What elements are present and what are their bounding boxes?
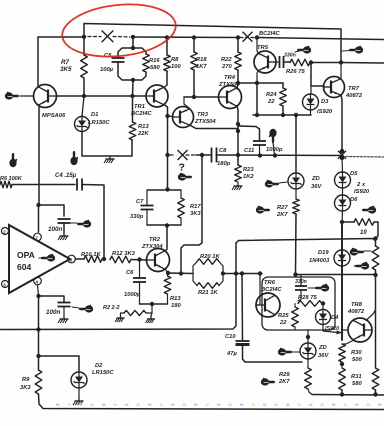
svg-text:D3: D3 (321, 99, 329, 105)
hand icon right top (355, 46, 363, 53)
wire box top edge (236, 239, 376, 247)
svg-text:40872: 40872 (345, 93, 363, 99)
wire loop to TR6 (223, 273, 262, 275)
svg-text:R24: R24 (266, 92, 277, 98)
svg-text:10: 10 (360, 230, 367, 236)
wire box right lower column (375, 275, 377, 368)
resistor R13 22K (132, 96, 134, 122)
transistor TR2 ZTX304 (147, 249, 170, 272)
svg-text:TR4: TR4 (224, 75, 236, 81)
wire testpoint stub (273, 142, 275, 156)
node R23 tap (236, 153, 240, 157)
svg-text:C11: C11 (244, 148, 254, 154)
wire zener column (295, 115, 297, 173)
svg-text:LR150C: LR150C (92, 370, 114, 376)
resistor 10 (354, 219, 374, 226)
svg-text:180: 180 (171, 303, 181, 309)
zener ZD 36V (upper) (288, 173, 304, 189)
wire R26 node to corner node (311, 62, 341, 64)
svg-text:D1: D1 (91, 112, 98, 118)
transistor TR5 BC214C (254, 51, 276, 73)
wire TR5 emitter ext (256, 83, 258, 115)
svg-text:580: 580 (150, 65, 160, 71)
resistor R22 270 (237, 38, 239, 53)
svg-text:R8: R8 (171, 57, 179, 63)
wire TR6 base drop (256, 274, 260, 306)
resistor R31 580 (339, 368, 346, 390)
wire R27 down to box (295, 214, 298, 275)
svg-text:330n: 330n (284, 53, 296, 59)
wire C7R17 bottom bar (147, 224, 181, 226)
node rail A corner (339, 60, 343, 64)
wire TR4-TR5 emitter bus (238, 82, 283, 84)
node Q1/R7/D1 (82, 94, 86, 98)
wire TR4 collector (237, 83, 238, 89)
wire y62 rail to right edge (341, 62, 384, 65)
resistor box right upper (372, 246, 379, 270)
node box top right (373, 236, 377, 240)
wire bottom-mid rail (312, 394, 384, 397)
node TR2 emitter (166, 271, 170, 275)
svg-text:BC2I4C: BC2I4C (261, 287, 282, 293)
node R10/R12/feedback (102, 257, 106, 261)
diode D3 IS920 (303, 94, 319, 110)
node C5 top (131, 46, 135, 50)
resistor R30 500 (339, 344, 346, 362)
node TR5 rail (255, 35, 259, 39)
resistor R23 1K2 (235, 165, 242, 182)
svg-text:TR3: TR3 (197, 112, 209, 118)
svg-text:2K7: 2K7 (276, 212, 288, 218)
wire to 100n decoupling cap (39, 205, 64, 216)
wire pin4 down (38, 285, 39, 296)
svg-text:R22: R22 (221, 57, 232, 63)
wire mid dashed2 (186, 154, 196, 156)
resistor R17 3K3 (180, 190, 182, 198)
svg-text:ZTX504: ZTX504 (194, 119, 216, 125)
wire R12 to TR2 base (131, 259, 147, 262)
node zener top (306, 335, 310, 339)
capacitor C10 47u (236, 340, 250, 342)
svg-text:IS920: IS920 (354, 189, 370, 195)
node TR3 base tap (165, 114, 169, 118)
wire TR5 collector to rail (257, 38, 258, 53)
svg-text:TR5: TR5 (257, 45, 269, 51)
transistor TR7 40872 (324, 77, 345, 98)
capacitor C4 .15u (76, 179, 78, 191)
wire pin4 column (38, 296, 40, 356)
svg-text:OPA: OPA (17, 250, 35, 260)
wire TR5 base right (276, 61, 278, 63)
wire rail to C5 loop (132, 37, 134, 48)
X mark on right column (338, 151, 346, 159)
wire D6 to node (341, 211, 344, 222)
resistor R25 22 (294, 304, 296, 308)
transistor TR1 BC214C (146, 85, 168, 107)
wire zener bottom (307, 359, 309, 368)
transistor TR3 ZTX504 (173, 107, 194, 128)
transistor Q1 MPSA06 (34, 85, 57, 108)
svg-text:D19: D19 (318, 250, 329, 256)
wire box left drop (235, 243, 237, 274)
wire D3 top column (311, 63, 324, 87)
resistor R2 2.2 (124, 310, 146, 315)
wire TR1 emitter up (164, 85, 167, 88)
svg-text:330p: 330p (130, 214, 144, 220)
svg-text:R10 1K: R10 1K (81, 252, 101, 258)
node R30/R31 (340, 362, 344, 366)
node TR4/TR3 junction a (236, 122, 240, 126)
wire output column (341, 222, 343, 340)
node testpoint tap (273, 153, 277, 157)
hand icon left mid (9, 159, 16, 167)
wire op-amp output (75, 258, 84, 260)
svg-text:R18: R18 (196, 57, 207, 63)
wire V+ to op-amp pin 7 (38, 205, 40, 232)
svg-text:270: 270 (221, 64, 232, 70)
svg-text:3K5: 3K5 (60, 66, 72, 73)
node C6 tap (137, 257, 141, 261)
node output column top (340, 220, 344, 224)
wire TR3 base stub (168, 115, 173, 118)
ground under R23 (237, 183, 239, 186)
svg-text:R25: R25 (278, 313, 289, 319)
hand icon at R29 (261, 378, 269, 385)
node rail/C5 (131, 35, 135, 39)
wire R6 to C4 (12, 184, 75, 186)
transistor TR8 40872 (348, 318, 372, 342)
svg-text:TR7: TR7 (348, 86, 360, 92)
wire TR5 emitter down (257, 71, 258, 83)
wire TR2 emitter (165, 269, 168, 273)
hand icon below D1 (70, 157, 77, 165)
ground under 100n top (63, 233, 65, 236)
wire Q1 base stub from hand (20, 95, 34, 97)
svg-text:ZD: ZD (311, 176, 321, 182)
svg-text:1K7: 1K7 (196, 64, 207, 70)
node R18 rail (192, 35, 196, 39)
op-amp U1 OPA604 triangle (9, 225, 70, 293)
svg-text:R23: R23 (243, 167, 254, 173)
svg-text:R21 1K: R21 1K (198, 290, 218, 296)
wire D5 stub (341, 158, 344, 172)
wire C5 loop to TR1 base (132, 80, 135, 96)
svg-text:R9: R9 (22, 377, 30, 383)
wire TR1 collector column (164, 105, 168, 191)
node TR6 base drop (258, 271, 262, 275)
svg-text:D6: D6 (350, 197, 358, 203)
wire TR8 collector (366, 310, 376, 321)
capacitor C7 330p (146, 190, 148, 205)
wire rail B main (133, 36, 238, 39)
svg-text:36V: 36V (318, 353, 329, 359)
X mark on rail B (circled) (102, 31, 114, 43)
node TR1 base column (130, 94, 134, 98)
svg-text:100µ: 100µ (100, 67, 114, 73)
hand icon at 330n bottom (321, 284, 329, 291)
svg-text:TR8: TR8 (351, 302, 363, 308)
wire D1 bottom to ground bar (82, 132, 132, 157)
svg-text:1000p: 1000p (124, 292, 141, 298)
svg-text:BC2I4C: BC2I4C (131, 111, 152, 117)
svg-text:?: ? (179, 162, 185, 174)
svg-text:ZD: ZD (318, 345, 328, 351)
resistor R12 3K3 (110, 256, 131, 263)
hand icon below X (178, 173, 186, 180)
wire C7R17 top bar (147, 189, 181, 191)
hand icon testpoint mid (269, 129, 276, 137)
svg-text:IS920: IS920 (317, 109, 333, 115)
diode D1 LR150C (82, 96, 84, 117)
svg-text:R2 2-2: R2 2-2 (103, 305, 120, 311)
ground under R2 left (120, 315, 122, 318)
svg-text:1N4003: 1N4003 (309, 258, 330, 264)
svg-text:180p: 180p (217, 161, 231, 167)
svg-text:R16: R16 (149, 58, 160, 64)
node mid right a (340, 149, 344, 153)
svg-text:330n: 330n (295, 279, 307, 285)
wire C10 to bottom run (243, 346, 303, 362)
wire TR3 emitter up (184, 97, 190, 109)
svg-text:TR1: TR1 (134, 104, 145, 110)
zener ZD 36V (lower) (300, 343, 316, 359)
wire mid to C8 (196, 154, 210, 156)
wire rail B dashed to node (113, 36, 130, 39)
wire rail drop to supply rail (0, 274, 236, 330)
red annotation ellipse (60, 0, 179, 62)
svg-text:ZTX304: ZTX304 (141, 244, 163, 250)
node box right mid (373, 273, 377, 277)
wire C10 drop (241, 274, 244, 341)
resistor R26 75 (290, 59, 310, 66)
svg-text:D4: D4 (331, 315, 339, 321)
ground under D2 (78, 398, 80, 401)
wire TR4 emitter down (237, 106, 238, 165)
hand icon near 330n top (303, 46, 311, 53)
wire R2 drop (151, 304, 153, 313)
wire C11 bottom (259, 145, 261, 156)
X mark rail B right (243, 32, 253, 42)
transistor TR4 ZTX504 (219, 86, 242, 109)
X mark mid (178, 150, 188, 160)
resistor R7 3K5 (83, 37, 85, 55)
op-amp pin3 circle (2, 281, 9, 288)
node TR4/TR3 junction b (236, 129, 240, 133)
wire to 100n bottom (39, 296, 65, 302)
svg-text:R30: R30 (351, 350, 362, 356)
resistor R16 580 loop (133, 48, 146, 54)
diode D6 (335, 195, 351, 211)
svg-text:100n: 100n (48, 226, 63, 233)
resistor right edge 560 (372, 368, 379, 390)
wire D3 bottom (310, 110, 312, 115)
svg-text:3K3: 3K3 (20, 385, 31, 391)
wire emitter bus y273 (168, 272, 193, 275)
node mid right b (340, 156, 344, 160)
svg-text:604: 604 (17, 262, 31, 272)
wire collector feed Q1 (37, 37, 39, 86)
node TR3 collector feed (200, 153, 204, 157)
op-amp pin4 circle (34, 277, 42, 285)
hand icon box lower (361, 262, 369, 269)
svg-text:LR150C: LR150C (88, 120, 110, 126)
capacitor C6 1000p (139, 260, 141, 278)
hand icon at zener upper (265, 180, 273, 187)
svg-text:TR2: TR2 (149, 237, 161, 243)
wire zener top tap (307, 330, 309, 343)
wire TR6 box (262, 277, 335, 330)
node R22 rail (236, 35, 240, 39)
svg-text:R28 75: R28 75 (298, 295, 317, 301)
wire zener to R27 (295, 189, 297, 199)
hand icon at R27 (256, 206, 264, 213)
wire mid dashed (170, 154, 174, 156)
resistor R29 2K7 (305, 368, 312, 389)
svg-text:D5: D5 (350, 171, 358, 177)
wire TR7 collector up (340, 63, 342, 79)
ground under 100n bottom (63, 316, 65, 319)
ground under R2 right (151, 313, 152, 316)
svg-text:100n: 100n (46, 309, 61, 316)
wire top rail A (84, 24, 341, 63)
wire D5-D6 (342, 188, 344, 195)
svg-text:3K3: 3K3 (190, 211, 201, 217)
svg-text:40872: 40872 (347, 309, 365, 315)
svg-text:R27: R27 (277, 205, 288, 211)
capacitor 330n (bottom) (300, 275, 302, 286)
capacitor 330n (top) (279, 56, 281, 68)
hand icon at OPA text (47, 254, 55, 261)
diode D4 IS920 (322, 304, 324, 310)
svg-text:BC2I4C: BC2I4C (259, 31, 280, 37)
svg-text:C8: C8 (219, 148, 227, 154)
svg-text:2K7: 2K7 (278, 379, 290, 385)
wire C11 top (238, 126, 260, 140)
wire D3 stub (310, 86, 312, 94)
diode D5 (335, 172, 351, 188)
resistor R18 1K7 (193, 38, 195, 53)
capacitor C8 180p (211, 148, 213, 163)
svg-text:R7: R7 (61, 59, 70, 66)
svg-text:1K2: 1K2 (243, 174, 254, 180)
node C7R17 bottom (165, 223, 169, 227)
wire lower bus y115 (253, 114, 311, 116)
svg-text:2 x: 2 x (356, 182, 366, 188)
wire C6-R13 bottom bar (140, 303, 168, 305)
resistor R27 2K7 (293, 199, 300, 214)
wire box bottom edge (296, 274, 376, 276)
wire TR3 collector right (190, 125, 238, 128)
capacitor C5 100u loop (118, 48, 133, 56)
hand icon box upper (350, 248, 358, 255)
wire D2 bottom (78, 388, 80, 398)
capacitor C11 1000p (253, 140, 266, 142)
transistor TR6 BC214C (256, 293, 280, 317)
wire cap to R26 (284, 61, 291, 63)
svg-text:C10: C10 (225, 334, 236, 340)
node TR4 collector / R22 (236, 81, 240, 85)
wire top-left rail segment (38, 36, 84, 38)
wire TR3 emitter to TR4 base (184, 96, 219, 98)
svg-text:C6: C6 (126, 270, 134, 276)
svg-text:22: 22 (267, 99, 275, 105)
node C11 tap (258, 153, 262, 157)
diode D19 1N4003 (334, 250, 350, 266)
svg-text:22K: 22K (137, 131, 149, 137)
svg-text:R31: R31 (351, 374, 362, 380)
wire C4 to feedback column (82, 185, 104, 260)
resistor R10 1K (84, 256, 102, 263)
node feedback bottom (179, 271, 183, 275)
node R2 tap (150, 302, 154, 306)
wire to D2 (39, 356, 80, 372)
capacitor 100n (bottom) (58, 302, 71, 304)
node R9 top (36, 354, 40, 358)
svg-text:22: 22 (279, 320, 287, 326)
svg-text:R17: R17 (190, 204, 201, 210)
hand icon input left (5, 92, 13, 99)
node V+ junction (36, 203, 40, 207)
wire TR8 base (342, 329, 348, 331)
svg-text:R13: R13 (138, 124, 149, 130)
op-amp pin2 circle (2, 228, 9, 235)
node R26/D3 (309, 60, 313, 64)
svg-text:580: 580 (352, 381, 362, 387)
wire mid dashed right edge (346, 156, 384, 159)
svg-text:C4 .15µ: C4 .15µ (55, 173, 77, 179)
node box drop a (234, 271, 238, 275)
ground mid-left (109, 156, 111, 159)
node emitter bus a (255, 113, 259, 117)
node pin4 branch (36, 294, 40, 298)
resistor R6 100K (0, 181, 12, 188)
svg-text:C7: C7 (136, 199, 144, 205)
node box drop b (240, 271, 244, 275)
wire emitter Q1 down-column (38, 107, 40, 205)
node emitter bus b (281, 113, 285, 117)
svg-text:MPSA06: MPSA06 (42, 113, 66, 119)
node C7R17 top (165, 187, 169, 191)
svg-text:36V: 36V (311, 184, 322, 190)
svg-text:R29: R29 (279, 372, 290, 378)
node loop right (221, 271, 225, 275)
wire TR2 collector up (165, 226, 167, 252)
svg-text:R6 100K: R6 100K (0, 176, 23, 182)
svg-text:100: 100 (171, 64, 181, 70)
diode D2 LR150C (71, 372, 87, 388)
wire R30-R31 (341, 362, 343, 368)
wire rail B to right edge (257, 38, 384, 40)
op-amp pin6 circle (68, 255, 76, 263)
wire rail B dashed at TR5 (240, 37, 255, 39)
svg-text:R12 3K3: R12 3K3 (112, 251, 136, 257)
wire feedback elbow (181, 155, 202, 273)
node R28/D4 (321, 301, 325, 305)
capacitor 100n (top) (58, 218, 71, 220)
node x38 on rail (36, 327, 40, 331)
hand icon near D6 (368, 206, 376, 213)
svg-text:D2: D2 (95, 363, 103, 369)
node emitter bus c (294, 113, 298, 117)
wire rail B dashed left (88, 36, 101, 38)
svg-text:TR6: TR6 (264, 280, 276, 286)
resistor loop R20/R21 (193, 262, 197, 274)
hand icon at 100n top (83, 220, 91, 227)
wire Q1 to node (57, 95, 147, 97)
resistor R24 22 (282, 83, 284, 88)
wire bottom rail (39, 394, 384, 410)
node R8 rail (165, 35, 169, 39)
